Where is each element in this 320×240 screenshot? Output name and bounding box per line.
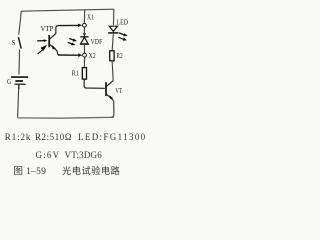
resistor R2: [110, 51, 114, 61]
caption line 2: [36, 150, 61, 160]
svg-text:X2: X2: [89, 51, 96, 60]
svg-text:VT: VT: [115, 86, 122, 95]
svg-text:X1: X1: [87, 12, 94, 21]
svg-text:R1: R1: [72, 70, 80, 78]
plug arrow into X1 (from VTP collector): [58, 24, 82, 27]
wire switch to battery: [18, 50, 21, 75]
caption line 1: [5, 132, 32, 142]
light arrows into VDF: [68, 38, 77, 45]
LED: [108, 26, 118, 33]
wire VT emitter to bottom wire: [112, 101, 114, 118]
socket X1: [83, 23, 87, 27]
small plug arrow down on wire above VDF: [83, 33, 86, 36]
battery G: [11, 77, 28, 84]
wire R2 to VT collector: [112, 61, 113, 81]
wire LED to R2: [112, 34, 113, 50]
phototransistor VTP: [49, 26, 59, 55]
wire battery to bottom-left corner: [18, 85, 19, 118]
wire right column top (corner to LED): [112, 9, 115, 25]
caption line 3: [14, 163, 47, 177]
wire VDF to X2: [83, 45, 85, 54]
transistor VT: [106, 81, 114, 101]
wire R1 to VT base: [84, 79, 105, 88]
wire X1 to VDF: [83, 27, 85, 33]
wire middle column top (junction to X1): [83, 10, 85, 23]
svg-text:G: G: [7, 79, 11, 86]
wire top: [21, 9, 114, 11]
resistor R1: [82, 68, 86, 80]
wire left (top wire corner down to switch): [19, 11, 22, 35]
svg-text:LED: LED: [117, 20, 129, 27]
svg-text:S: S: [12, 40, 16, 47]
socket X2: [83, 53, 87, 57]
svg-text:R2: R2: [116, 52, 123, 60]
wire bottom: [18, 116, 114, 119]
plug arrow into X2 (from VTP emitter): [58, 53, 82, 57]
svg-text:VTP: VTP: [41, 24, 54, 33]
photodiode VDF: [80, 37, 89, 44]
switch S: [18, 37, 21, 48]
light arrows into VTP: [37, 39, 47, 54]
wire X2 to R1: [83, 57, 85, 67]
svg-text:VDF: VDF: [91, 37, 103, 46]
light arrows out of LED: [118, 33, 127, 41]
